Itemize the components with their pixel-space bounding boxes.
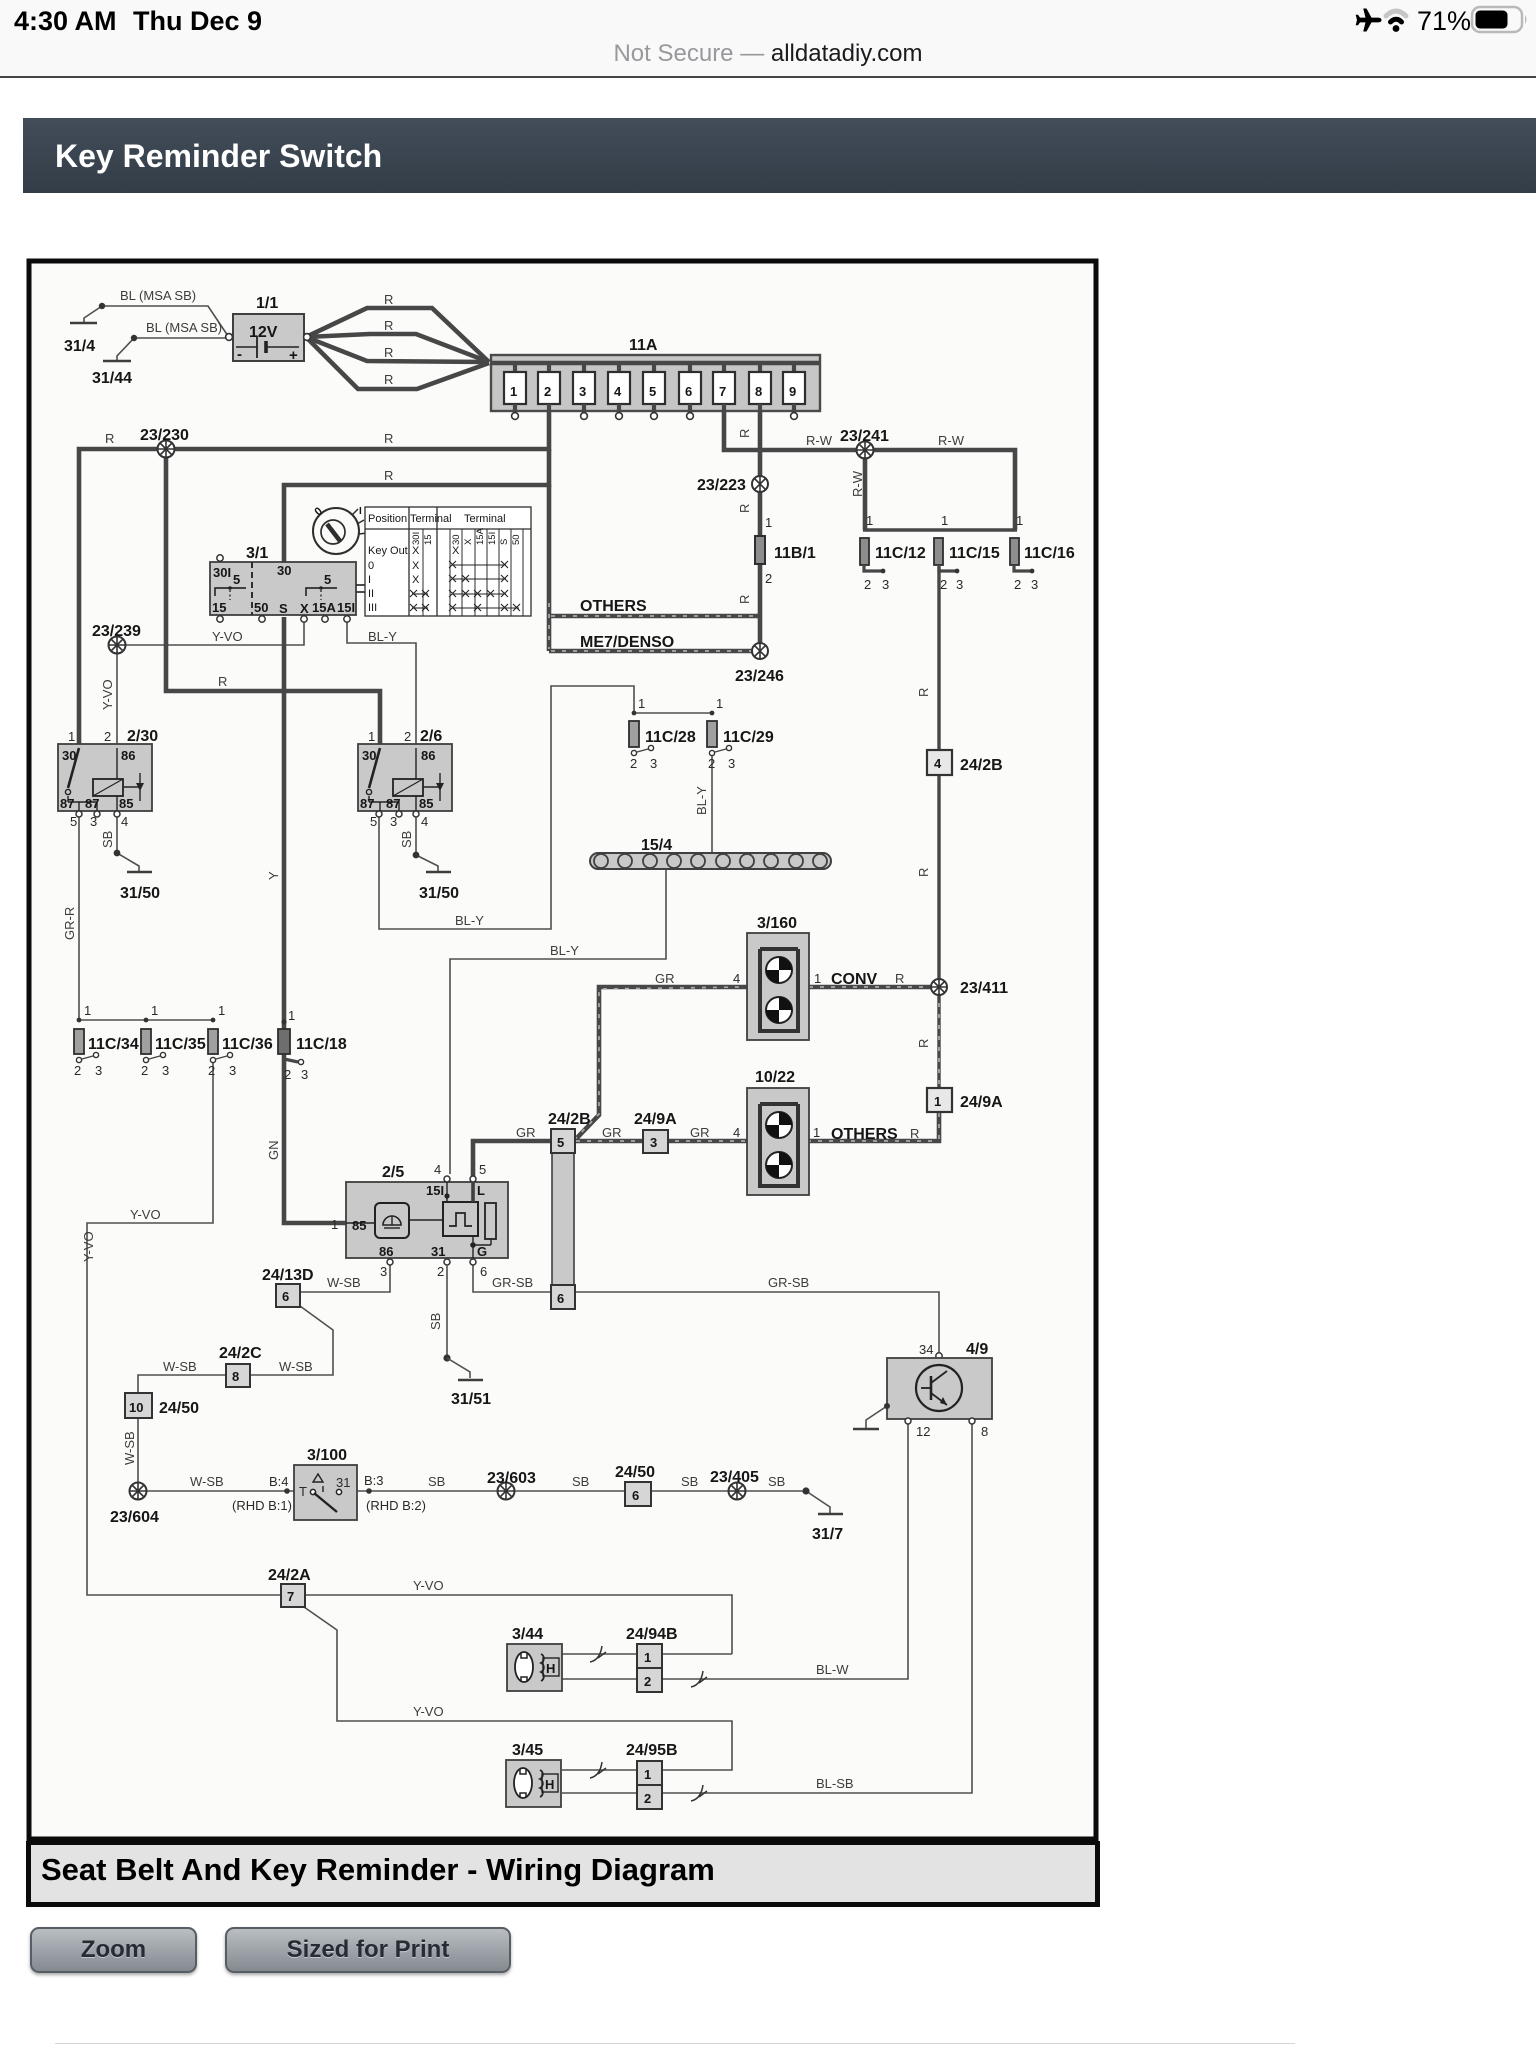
wire SB 24/50 to junction 23/405 [651, 1490, 729, 1492]
switch 3/100 [232, 1447, 426, 1520]
connector 24/13D [262, 1267, 314, 1307]
svg-text:3: 3 [1031, 577, 1038, 592]
svg-text:2/30: 2/30 [127, 728, 158, 745]
svg-text:86: 86 [421, 748, 435, 763]
svg-text:GR-SB: GR-SB [492, 1275, 533, 1290]
svg-text:31/50: 31/50 [419, 885, 459, 902]
svg-text:2: 2 [940, 577, 947, 592]
wire R fuse2 down to 23/230 line and relay 2/30 [79, 411, 549, 744]
caption bar [26, 1841, 1100, 1907]
svg-text:1/1: 1/1 [256, 295, 278, 312]
svg-text:24/95B: 24/95B [626, 1742, 678, 1759]
svg-text:23/223: 23/223 [697, 477, 746, 494]
ignition key symbol [312, 505, 374, 554]
svg-text:6: 6 [557, 1291, 564, 1306]
ground 31/51 [443, 1354, 491, 1408]
svg-text:OTHERS: OTHERS [831, 1126, 898, 1143]
wire R 11C/15 down to 24/2B pin4 [937, 567, 940, 979]
svg-text:4: 4 [421, 814, 428, 829]
wire R CONV lamp 3/160 to 23/411 [809, 985, 931, 990]
svg-text:3/44: 3/44 [512, 1626, 543, 1643]
svg-text:34: 34 [919, 1342, 933, 1357]
svg-text:85: 85 [119, 796, 133, 811]
svg-text:Y-VO: Y-VO [81, 1231, 96, 1262]
lamp 3/44 [507, 1626, 562, 1691]
svg-text:3: 3 [956, 577, 963, 592]
fuse 11B/1 [755, 515, 816, 586]
svg-text:+: + [289, 347, 298, 364]
svg-text:15: 15 [212, 600, 226, 615]
wire ground lead 31/4 [84, 306, 102, 323]
svg-text:15I: 15I [337, 600, 355, 615]
svg-text:11C/15: 11C/15 [949, 545, 1000, 562]
svg-text:BL-Y: BL-Y [455, 913, 484, 928]
wire OTHERS branch [549, 614, 758, 619]
svg-text:24/2A: 24/2A [268, 1567, 311, 1584]
svg-text:15I: 15I [487, 532, 498, 545]
svg-text:85: 85 [352, 1218, 366, 1233]
wire R 23/411 down to 24/9A pin1 [937, 995, 940, 1088]
wire R battery fan 1 [306, 308, 489, 362]
connector rail 15/4 [590, 837, 831, 869]
wire GR lamp 10/22 to 24/9A-3 and 24/2B-5 [574, 1139, 747, 1144]
svg-text:24/9A: 24/9A [634, 1111, 677, 1128]
svg-text:R: R [384, 345, 393, 360]
svg-text:8: 8 [232, 1369, 239, 1384]
wire 4/9 pin12 lead [907, 1421, 909, 1424]
svg-text:S: S [499, 539, 510, 545]
svg-text:3: 3 [162, 1063, 169, 1078]
svg-text:30: 30 [362, 748, 376, 763]
wire 24/94B pin1 to Y-VO riser [661, 1653, 732, 1655]
svg-text:1: 1 [716, 696, 723, 711]
svg-text:5: 5 [370, 814, 377, 829]
svg-text:5: 5 [70, 814, 77, 829]
wire Y-VO 24/2A lower branch to 24/95B [304, 1607, 732, 1770]
lamp unit 10/22 [733, 1069, 820, 1195]
break symbol BL-SB [691, 1785, 707, 1801]
svg-text:Position: Position [368, 513, 407, 525]
fuse 8 [749, 363, 771, 412]
junction 23/603 [487, 1470, 536, 1500]
break symbol pair 3/44 [590, 1646, 606, 1662]
svg-text:3/160: 3/160 [757, 915, 797, 932]
svg-text:23/405: 23/405 [710, 1469, 759, 1486]
svg-text:11C/36: 11C/36 [222, 1036, 273, 1053]
svg-text:1: 1 [813, 1125, 820, 1140]
junction 23/411 [931, 979, 1008, 997]
wire bus 11C/34 11C/35 11C/36 pin1 [79, 1019, 213, 1021]
svg-text:W-SB: W-SB [279, 1359, 313, 1374]
svg-text:4: 4 [614, 384, 622, 399]
svg-text:SB: SB [768, 1474, 785, 1489]
wire 3/45 to 24/95B pins [562, 1769, 638, 1771]
svg-text:31/50: 31/50 [120, 885, 160, 902]
svg-text:R: R [105, 431, 114, 446]
fuse 1 [504, 363, 526, 419]
wire R battery fan 2 [306, 334, 489, 362]
connector 24/95B [626, 1742, 678, 1809]
svg-text:24/2B: 24/2B [960, 757, 1003, 774]
wire Y-VO from 11C/36 pin2 to connector 24/2A [87, 1061, 282, 1595]
svg-text:G: G [477, 1244, 487, 1259]
ground 31/44 [103, 360, 131, 363]
svg-text:30: 30 [277, 563, 291, 578]
connector 24/9A pin1 [927, 1088, 1003, 1112]
wire BL-Y from 3/1 pin 15I to relay 2/6 pin 2 [347, 621, 416, 744]
svg-text:SB: SB [572, 1474, 589, 1489]
wire Y-VO 24/2A to 24/94B [304, 1595, 732, 1654]
svg-text:2: 2 [644, 1791, 651, 1806]
svg-text:1: 1 [644, 1650, 651, 1665]
svg-text:15A: 15A [475, 527, 486, 545]
svg-text:SB: SB [428, 1474, 445, 1489]
svg-text:H: H [546, 1661, 555, 1676]
dash overlay on variant wires [549, 603, 939, 1141]
svg-text:2: 2 [644, 1674, 651, 1689]
fuse 11C/15 [934, 513, 1000, 592]
wire W-SB 24/2C to 24/50 [138, 1375, 226, 1394]
svg-text:8: 8 [755, 384, 762, 399]
svg-text:4: 4 [733, 1125, 740, 1140]
wire BL(MSA SB) lower to battery [134, 337, 228, 339]
wire Y ignition 3/1 pin S down through 11C/18 [282, 617, 287, 1029]
svg-text:ME7/DENSO: ME7/DENSO [580, 634, 674, 651]
svg-text:1: 1 [331, 1217, 338, 1232]
fuse 11C/34 [74, 1003, 139, 1078]
svg-text:3: 3 [882, 577, 889, 592]
svg-text:(RHD B:2): (RHD B:2) [366, 1498, 426, 1513]
svg-text:11C/16: 11C/16 [1024, 545, 1075, 562]
fuse 9 [783, 363, 805, 419]
svg-text:3/1: 3/1 [246, 545, 268, 562]
svg-text:11C/35: 11C/35 [155, 1036, 206, 1053]
svg-text:BL (MSA SB): BL (MSA SB) [146, 320, 222, 335]
svg-text:12V: 12V [249, 324, 278, 341]
svg-text:CONV: CONV [831, 971, 878, 988]
svg-text:R: R [384, 292, 393, 307]
relay 2/6 [358, 728, 452, 829]
svg-text:R-W: R-W [938, 433, 965, 448]
fuse 11C/18 [278, 1008, 347, 1082]
unit 2/5 interval relay [331, 1162, 508, 1279]
svg-text:1: 1 [218, 1003, 225, 1018]
svg-text:BL-Y: BL-Y [550, 943, 579, 958]
svg-text:5: 5 [649, 384, 656, 399]
wire BL(MSA SB) upper to battery [102, 306, 228, 336]
svg-text:3: 3 [650, 1135, 657, 1150]
wire BL-Y from 11C/29 pin2 to rail 15/4 [711, 753, 713, 853]
fuse 4 [608, 363, 630, 419]
svg-text:B:4: B:4 [269, 1474, 289, 1489]
svg-text:W-SB: W-SB [122, 1431, 137, 1465]
svg-text:II: II [368, 588, 374, 600]
wire GR-SB unit 2/5 pin6 to 24/2B pin6 [473, 1265, 552, 1292]
svg-text:1: 1 [288, 1008, 295, 1023]
svg-text:23/603: 23/603 [487, 1470, 536, 1487]
svg-text:1: 1 [866, 513, 873, 528]
wire R fuse8 down through 11B/1 to 23/246 [758, 411, 763, 536]
fuse 11C/36 [208, 1003, 273, 1078]
wire R-W 23/241 to 11C/16 [873, 450, 1015, 530]
svg-text:R: R [910, 1126, 919, 1141]
svg-text:31/4: 31/4 [64, 338, 95, 355]
svg-text:24/13D: 24/13D [262, 1267, 314, 1284]
connector 24/2A pin7 [268, 1567, 311, 1607]
ground 31/50 left [114, 850, 161, 902]
wire ME7/DENSO branch [549, 649, 757, 654]
wire Y-VO 23/239 to relay 2/30 pin 2 [116, 645, 118, 744]
svg-text:4/9: 4/9 [966, 1341, 988, 1358]
page title bar [23, 118, 1536, 193]
ground 31/4 [70, 322, 97, 325]
svg-text:11C/28: 11C/28 [645, 729, 696, 746]
svg-text:X: X [412, 545, 420, 557]
fuse 11C/35 [141, 1003, 206, 1078]
svg-text:3: 3 [390, 814, 397, 829]
svg-text:2: 2 [544, 384, 551, 399]
connector 24/9A pin3 [634, 1111, 677, 1153]
svg-text:30I: 30I [411, 532, 422, 545]
svg-text:24/2C: 24/2C [219, 1345, 262, 1362]
junction 23/223 [697, 476, 768, 494]
connector strip 24/2B [548, 1111, 591, 1309]
svg-text:R-W: R-W [850, 470, 865, 497]
unit 4/9 seat belt reminder [884, 1341, 992, 1439]
svg-text:R: R [916, 1039, 931, 1048]
svg-text:SB: SB [681, 1474, 698, 1489]
svg-text:Y-VO: Y-VO [212, 629, 243, 644]
junction 23/246 [735, 643, 784, 685]
svg-text:2: 2 [1014, 577, 1021, 592]
svg-text:Key Out: Key Out [368, 545, 408, 557]
svg-text:X: X [412, 560, 420, 572]
svg-text:R: R [916, 868, 931, 877]
svg-text:23/239: 23/239 [92, 623, 141, 640]
svg-text:23/230: 23/230 [140, 427, 189, 444]
junction 23/405 [710, 1469, 759, 1500]
wire R 23/230 down to relay 2/6 pin1 [166, 449, 380, 744]
connector 24/2B pin4 [927, 750, 1003, 775]
junction 23/241 [840, 428, 889, 459]
wire unit 4/9 ground lead [866, 1406, 887, 1429]
svg-text:1: 1 [68, 729, 75, 744]
svg-text:11C/12: 11C/12 [875, 545, 926, 562]
svg-text:3: 3 [90, 814, 97, 829]
wire R to OTHERS / ME7 branch [547, 485, 552, 651]
svg-text:GR-SB: GR-SB [768, 1275, 809, 1290]
svg-text:T: T [299, 1484, 307, 1499]
lamp 3/45 [506, 1742, 561, 1807]
svg-text:X: X [412, 574, 420, 586]
wire R fuse2 to ignition 3/1 pin 30 [284, 449, 549, 562]
svg-text:12: 12 [916, 1424, 930, 1439]
status icons svg [1345, 0, 1535, 44]
svg-text:Terminal: Terminal [410, 513, 452, 525]
wire SB relay 2/6 pin 4 to ground 31/50 [416, 814, 438, 872]
svg-text:W-SB: W-SB [327, 1275, 361, 1290]
svg-text:3/100: 3/100 [307, 1447, 347, 1464]
svg-text:1: 1 [638, 696, 645, 711]
svg-text:-: - [237, 346, 242, 363]
svg-text:SB: SB [428, 1313, 443, 1330]
svg-text:GR-R: GR-R [62, 907, 77, 940]
svg-text:24/9A: 24/9A [960, 1094, 1003, 1111]
svg-text:11A: 11A [629, 337, 658, 354]
svg-text:87: 87 [360, 796, 374, 811]
svg-text:3: 3 [728, 756, 735, 771]
fuse 11C/16 [1010, 513, 1075, 592]
svg-text:6: 6 [282, 1289, 289, 1304]
svg-text:I: I [368, 574, 371, 586]
svg-text:30I: 30I [213, 565, 231, 580]
svg-text:2/6: 2/6 [420, 728, 442, 745]
wire GN 11C/18 to unit 2/5 pin1 [284, 1053, 346, 1223]
wifi icon [1386, 11, 1406, 16]
fuse 5 [643, 363, 665, 419]
svg-text:3: 3 [301, 1067, 308, 1082]
svg-text:3: 3 [650, 756, 657, 771]
svg-text:L: L [477, 1183, 485, 1198]
svg-text:S: S [279, 601, 288, 616]
svg-text:1: 1 [765, 515, 772, 530]
wire Y-VO from 23/239 to 3/1 pin X [117, 621, 304, 645]
svg-text:I: I [359, 506, 362, 517]
diagram frame [29, 261, 1096, 1839]
svg-text:1: 1 [84, 1003, 91, 1018]
svg-text:23/604: 23/604 [110, 1509, 159, 1526]
svg-text:5: 5 [233, 572, 240, 587]
svg-text:2: 2 [630, 756, 637, 771]
svg-text:Terminal: Terminal [464, 513, 506, 525]
wire BL-W lamp chain to 4/9 pin12 [661, 1421, 908, 1679]
svg-text:B:3: B:3 [364, 1473, 384, 1488]
svg-text:R: R [737, 595, 752, 604]
svg-text:3: 3 [95, 1063, 102, 1078]
svg-text:Y-VO: Y-VO [100, 679, 115, 710]
svg-text:2/5: 2/5 [382, 1164, 404, 1181]
svg-text:1: 1 [941, 513, 948, 528]
svg-text:7: 7 [719, 384, 726, 399]
wire 3/44 to 24/94B pins [562, 1653, 638, 1655]
svg-text:24/50: 24/50 [615, 1464, 655, 1481]
svg-text:OTHERS: OTHERS [580, 598, 647, 615]
svg-text:10: 10 [129, 1400, 143, 1415]
svg-text:BL (MSA SB): BL (MSA SB) [120, 288, 196, 303]
svg-text:4: 4 [121, 814, 128, 829]
battery icon [1472, 7, 1522, 32]
wire BL-Y from rail 15/4 to unit 2/5 pin 4 [450, 869, 666, 1174]
svg-text:III: III [368, 602, 377, 614]
svg-text:6: 6 [685, 384, 692, 399]
svg-text:2: 2 [284, 1067, 291, 1082]
connector 24/94B [626, 1626, 678, 1692]
svg-text:15: 15 [423, 534, 434, 545]
wire SB 2/5 pin2 to ground 31/51 [446, 1265, 448, 1358]
svg-text:GR: GR [655, 971, 675, 986]
svg-text:87: 87 [60, 796, 74, 811]
svg-text:1: 1 [368, 729, 375, 744]
svg-text:6: 6 [480, 1264, 487, 1279]
ground 31/7 [802, 1487, 843, 1543]
fuse box 11A [491, 337, 820, 411]
wire R 11B/1 to 23/246 [758, 564, 763, 651]
svg-text:2: 2 [708, 756, 715, 771]
svg-text:24/50: 24/50 [159, 1400, 199, 1417]
svg-text:1: 1 [644, 1767, 651, 1782]
break symbol pair 3/45 [590, 1762, 606, 1778]
svg-text:BL-W: BL-W [816, 1662, 849, 1677]
svg-text:Y-VO: Y-VO [413, 1704, 444, 1719]
svg-text:24/94B: 24/94B [626, 1626, 678, 1643]
svg-text:3/45: 3/45 [512, 1742, 543, 1759]
svg-text:3: 3 [229, 1063, 236, 1078]
svg-text:86: 86 [379, 1244, 393, 1259]
svg-text:R: R [384, 318, 393, 333]
svg-text:H: H [545, 1777, 554, 1792]
svg-text:11C/18: 11C/18 [296, 1036, 347, 1053]
airplane icon [1356, 9, 1382, 32]
wire W-SB unit 2/5 pin3 to 24/13D [299, 1265, 390, 1292]
svg-text:7: 7 [287, 1589, 294, 1604]
wire GR riser 24/2B-5 to lamp 3/160 pin4 [574, 987, 747, 1141]
svg-text:2: 2 [74, 1063, 81, 1078]
svg-text:50: 50 [254, 600, 268, 615]
svg-text:2: 2 [404, 729, 411, 744]
fuse 7 [713, 363, 735, 412]
svg-text:87: 87 [386, 796, 400, 811]
svg-text:5: 5 [479, 1162, 486, 1177]
relay 2/30 [58, 728, 158, 829]
svg-text:BL-Y: BL-Y [694, 786, 709, 815]
svg-text:50: 50 [511, 534, 522, 545]
wire BL-SB lamp chain to 4/9 pin8 [661, 1421, 972, 1793]
svg-text:W-SB: W-SB [163, 1359, 197, 1374]
connector 24/50 pin10 [125, 1393, 199, 1418]
ignition position table [365, 507, 531, 616]
svg-text:BL-Y: BL-Y [368, 629, 397, 644]
svg-text:X: X [463, 538, 474, 545]
svg-text:9: 9 [789, 384, 796, 399]
svg-text:1: 1 [814, 971, 821, 986]
wire R 23/411 up link [937, 979, 940, 995]
svg-text:31/7: 31/7 [812, 1526, 843, 1543]
svg-text:R-W: R-W [806, 433, 833, 448]
svg-text:86: 86 [121, 748, 135, 763]
svg-text:4: 4 [934, 756, 942, 771]
svg-text:0: 0 [368, 560, 374, 572]
ground at 4/9 [853, 1428, 879, 1431]
svg-text:24/2B: 24/2B [548, 1111, 591, 1128]
svg-text:(RHD B:1): (RHD B:1) [232, 1498, 292, 1513]
wire SB relay 2/30 pin 4 to ground 31/50 [117, 814, 139, 872]
svg-text:R: R [916, 688, 931, 697]
svg-text:2: 2 [141, 1063, 148, 1078]
svg-text:R: R [895, 971, 904, 986]
junction 23/230 [140, 427, 189, 458]
wire W-SB 24/13D to 24/2C [250, 1306, 333, 1375]
svg-text:R: R [384, 431, 393, 446]
svg-text:85: 85 [419, 796, 433, 811]
svg-text:GR: GR [690, 1125, 710, 1140]
wire SB 3/100 to junction 23/603 [357, 1490, 498, 1492]
svg-text:31: 31 [431, 1244, 445, 1259]
svg-text:1: 1 [934, 1094, 941, 1109]
wire SB 23/603 to connector 24/50 [514, 1490, 625, 1492]
svg-text:2: 2 [765, 571, 772, 586]
fuse 3 [573, 363, 595, 419]
wire GR-SB 24/2B pin6 to unit 4/9 pin34 [574, 1292, 939, 1355]
